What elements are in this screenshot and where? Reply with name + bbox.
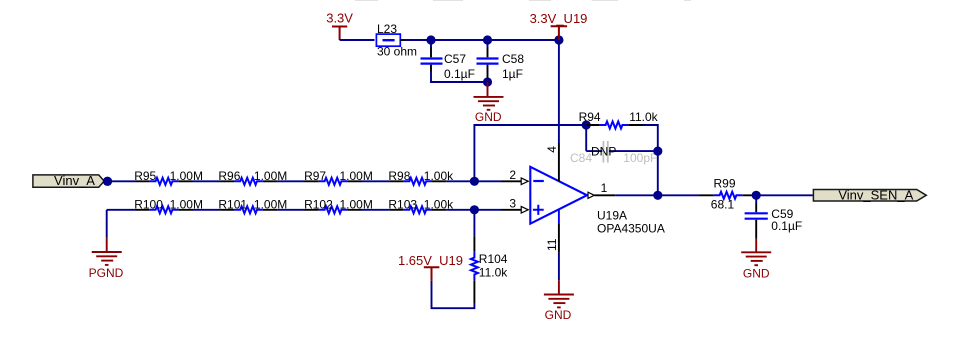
wire R94 right to output riser [643, 125, 658, 195]
svg-text:R104: R104 [479, 252, 508, 266]
ground GND (C57/C58) [474, 82, 504, 110]
svg-text:C57: C57 [444, 52, 466, 66]
svg-text:1µF: 1µF [502, 67, 523, 81]
resistor R104 [471, 210, 508, 303]
node junction C58 gnd [483, 77, 492, 86]
svg-text:Vinv_SEN_A: Vinv_SEN_A [838, 188, 913, 203]
inductor L23 [376, 22, 417, 59]
power symbol 1.65V_U19 [424, 267, 440, 280]
node junction pin2 [470, 177, 479, 186]
capacitor C59 [745, 195, 803, 238]
svg-text:U19A: U19A [597, 208, 627, 222]
wire pin2 [474, 180, 501, 182]
svg-text:GND: GND [475, 110, 502, 124]
pin 1 output [588, 192, 594, 198]
node junction 3.3V_U19 [554, 35, 563, 44]
resistor R100 [134, 197, 203, 213]
node junction C84 right [653, 147, 662, 156]
svg-text:R99: R99 [714, 177, 736, 191]
svg-text:PGND: PGND [89, 266, 124, 280]
svg-text:GND: GND [743, 266, 770, 280]
node junction C58 [483, 35, 492, 44]
pin 3 arrow [521, 207, 528, 214]
svg-text:Vinv_A: Vinv_A [54, 173, 95, 188]
wire R102-R103 [362, 209, 390, 211]
svg-text:3.3V_U19: 3.3V_U19 [530, 11, 588, 26]
svg-text:11: 11 [545, 238, 559, 251]
svg-text:2: 2 [509, 168, 516, 182]
top edge ghost marks [355, 0, 691, 1]
svg-text:68.1: 68.1 [711, 197, 735, 211]
svg-text:30 ohm: 30 ohm [377, 45, 417, 59]
node junction pin3 [470, 205, 479, 214]
wire R104 to 1.65V_U19 [432, 281, 475, 309]
pin 4 power [558, 40, 560, 143]
pin 2 arrow [521, 178, 528, 185]
resistor R99 [700, 177, 754, 212]
node junction C57 [426, 35, 435, 44]
wire R101-R102 [277, 209, 304, 211]
wire output to R99 [658, 194, 700, 196]
wire R97-R98 [362, 180, 390, 182]
svg-text:C84: C84 [570, 151, 592, 165]
svg-text:3.3V: 3.3V [326, 11, 353, 26]
svg-text:R98: R98 [388, 169, 410, 183]
wire R96-R97 [277, 180, 304, 182]
ground GND (op-amp) [544, 280, 574, 307]
resistor R103 [388, 197, 454, 213]
svg-text:3: 3 [509, 197, 516, 211]
svg-text:C58: C58 [502, 52, 524, 66]
wire L23 to 3.3V_U19 node [400, 39, 405, 41]
svg-text:R103: R103 [388, 197, 417, 211]
svg-text:R94: R94 [579, 110, 601, 124]
wire R95-R96 [193, 180, 221, 182]
wire R98 to pin2 node [446, 180, 474, 182]
resistor R96 [218, 169, 287, 185]
wire 3.3V to L23 [340, 39, 375, 41]
wire pin3 [474, 209, 501, 211]
svg-text:100pF: 100pF [623, 151, 657, 165]
svg-text:1.65V_U19: 1.65V_U19 [398, 253, 463, 268]
resistor R94 [579, 110, 659, 129]
capacitor C84 (DNP) [570, 125, 658, 165]
resistor R95 [134, 169, 203, 185]
capacitor C57 [421, 40, 475, 81]
svg-text:L23: L23 [377, 22, 397, 36]
svg-text:0.1µF: 0.1µF [771, 219, 802, 233]
svg-text:GND: GND [545, 308, 572, 322]
port Vinv_SEN_A [813, 188, 926, 203]
svg-text:R102: R102 [304, 197, 333, 211]
wire R99 to C59 node [753, 194, 756, 196]
wire R103 to pin3 node [446, 209, 474, 211]
svg-text:11.0k: 11.0k [479, 265, 508, 279]
wire PGND riser to R100 [107, 209, 136, 211]
node junction C59 [752, 191, 761, 200]
wire C59 node to port [756, 194, 813, 196]
svg-text:R101: R101 [218, 197, 247, 211]
svg-text:11.0k: 11.0k [629, 110, 658, 124]
power symbol 3.3V [332, 27, 347, 41]
power symbol 3.3V_U19 [551, 26, 568, 40]
node junction R94 left [582, 120, 591, 129]
svg-text:4: 4 [545, 146, 559, 153]
capacitor C58 [477, 40, 525, 81]
svg-text:0.1µF: 0.1µF [444, 67, 475, 81]
ground GND (C59) [741, 239, 771, 266]
resistor R97 [304, 169, 373, 185]
wire R100-R101 [193, 209, 221, 211]
wire feedback riser [474, 125, 586, 181]
svg-text:1: 1 [601, 181, 608, 195]
svg-text:R100: R100 [134, 197, 163, 211]
svg-text:R96: R96 [218, 169, 240, 183]
resistor R98 [388, 169, 454, 185]
svg-text:R95: R95 [134, 169, 156, 183]
wire riser PGND [106, 210, 108, 238]
svg-text:R97: R97 [304, 169, 326, 183]
pin 11 power [558, 209, 560, 224]
node junction output [653, 191, 662, 200]
wire port to R95 [108, 180, 136, 182]
port Vinv_A [33, 173, 104, 188]
node junction port Vinv_A [103, 177, 112, 186]
resistor R102 [304, 197, 373, 213]
resistor R101 [218, 197, 287, 213]
svg-text:DNP: DNP [591, 145, 616, 159]
wire C57 bottom to C58 bottom [431, 72, 488, 83]
ground PGND [92, 238, 122, 265]
op-amp U19A [530, 167, 665, 236]
svg-text:OPA4350UA: OPA4350UA [597, 222, 665, 236]
